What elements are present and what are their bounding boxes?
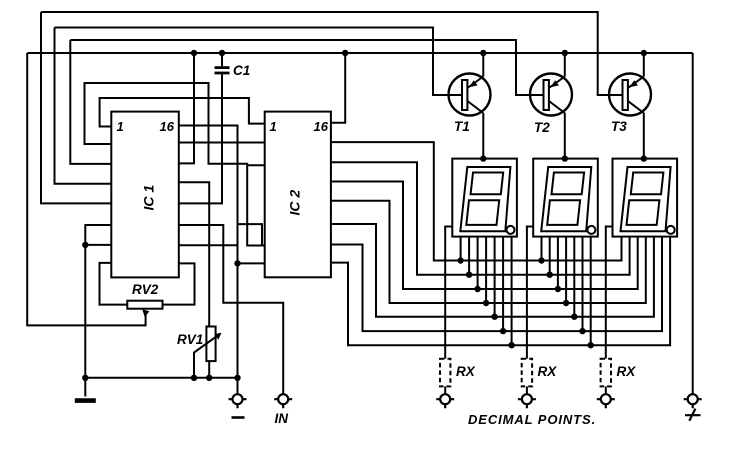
wire rail2 to T1 base: [55, 28, 463, 96]
wire left vertical x=70.3 to IC1 pin: [70, 40, 111, 164]
terminal dp3: [597, 394, 615, 408]
display DS1: [452, 159, 517, 346]
node DS1 top: [480, 155, 486, 161]
capacitor C1: [179, 53, 230, 203]
node RV1 gnd: [206, 375, 212, 381]
node rail T3: [641, 50, 647, 56]
IC1 box: [111, 112, 179, 278]
terminal minus: [229, 394, 247, 408]
svg-text:1: 1: [117, 119, 124, 134]
wire IC1 left pin 225 to ground: [85, 225, 111, 397]
wire IC1 pin 245 to minus line: [179, 244, 238, 246]
terminal IN: [274, 394, 292, 408]
wire segment bus a: [331, 142, 622, 260]
wire ground line: [85, 377, 237, 379]
wire IC1 left pin y=144 via y=83 to node harness: [85, 83, 265, 246]
node DS2 pins: [538, 257, 544, 263]
potentiometer RV1: [194, 327, 222, 378]
svg-text:16: 16: [160, 119, 175, 134]
node ground left: [82, 375, 88, 381]
node rail x194: [191, 50, 197, 56]
wire DS2 dp pin to RX2: [527, 227, 533, 359]
wire segment bus b: [331, 162, 630, 275]
node dots: [82, 50, 647, 381]
wire IC1 pin 225 to IN terminal: [179, 225, 283, 394]
wire IC1 pin 163 to +rail: [179, 53, 194, 163]
wire left vertical x=41 to IC1 pin: [41, 12, 111, 203]
wire segment bus c: [331, 182, 638, 290]
resistor RX1: [440, 359, 450, 387]
wire IC1 pin1 to IC2 pin via y=98: [100, 98, 265, 127]
node IC2 left 263: [234, 260, 240, 266]
wire segment bus f: [331, 237, 662, 332]
ground: [75, 398, 96, 403]
transistor T1: [449, 53, 491, 159]
wire + rail down to + terminal: [692, 53, 694, 394]
svg-text:T2: T2: [534, 120, 550, 135]
wire IC1 left pin 245 tap: [85, 244, 111, 246]
transistor T3: [609, 53, 651, 159]
wire stub node to IC2 pin y=165: [247, 164, 265, 166]
display DS2: [533, 159, 598, 346]
wire IC2 left pin 263 stub: [238, 262, 265, 264]
node rail T1: [480, 50, 486, 56]
node DS2 top: [562, 155, 568, 161]
svg-text:T3: T3: [611, 119, 627, 134]
label plus: [685, 409, 701, 421]
svg-text:IN: IN: [275, 411, 289, 426]
IC2 box: [265, 112, 331, 278]
svg-text:IC 1: IC 1: [141, 185, 157, 211]
node rail IC2: [342, 50, 348, 56]
wire IC1 left pin 263 to RV2 left: [100, 263, 128, 305]
wire segment bus e: [331, 224, 654, 317]
svg-text:RX: RX: [617, 364, 637, 379]
wire rail3 to T2 base: [70, 40, 543, 95]
node DS1 pins: [457, 257, 463, 263]
wire IC2 pin16 to +rail: [331, 53, 345, 123]
wire IC1 to IC2 y=142.5: [179, 142, 265, 144]
wire left vertical x=54.5 to IC1 pin: [55, 28, 112, 184]
wire IC1 pin 125.5 down minus line x=237.5: [179, 126, 238, 395]
wire +rail to RV2 wiper: [27, 53, 145, 325]
node rail T2: [562, 50, 568, 56]
wire segment bus g: [331, 237, 670, 346]
node DS3 top: [641, 155, 647, 161]
svg-text:16: 16: [314, 119, 329, 134]
svg-text:RV2: RV2: [132, 282, 159, 297]
resistor RX2: [522, 359, 532, 387]
potentiometer RV2: [127, 301, 162, 318]
node rail C1: [219, 50, 225, 56]
resistor RX3: [601, 359, 611, 387]
node RV1 wiper gnd: [191, 375, 197, 381]
node minus gnd: [234, 375, 240, 381]
svg-text:T1: T1: [454, 119, 470, 134]
svg-text:RV1: RV1: [177, 332, 203, 347]
svg-text:RX: RX: [456, 364, 476, 379]
wire segment bus d: [331, 201, 646, 303]
wire RX3 to terminal: [605, 386, 607, 394]
wire +V rail y=53: [27, 52, 693, 54]
wire RX1 to terminal: [444, 386, 446, 394]
label minus: [232, 416, 245, 419]
terminal dp2: [518, 394, 536, 408]
wire RX2 to terminal: [526, 386, 528, 394]
wire DS1 dp pin to RX1: [445, 227, 452, 359]
svg-text:RX: RX: [538, 364, 558, 379]
terminal plus: [684, 394, 702, 408]
terminal dp1: [436, 394, 454, 408]
node IC1 left 245: [82, 242, 88, 248]
svg-text:DECIMAL POINTS.: DECIMAL POINTS.: [468, 412, 596, 427]
svg-text:1: 1: [270, 119, 277, 134]
wire top rail to T3 base: [41, 12, 623, 95]
wire IC1 pin 263 to RV2 right: [163, 263, 195, 304]
svg-text:C1: C1: [233, 63, 250, 78]
transistor T2: [530, 53, 572, 159]
wire IC1 pin 182 to RV1: [179, 182, 209, 326]
svg-text:IC 2: IC 2: [287, 190, 303, 216]
wire DS3 dp pin to RX3: [606, 227, 613, 359]
wire branch 262 up to minus net: [238, 224, 263, 245]
display DS3: [613, 159, 678, 237]
